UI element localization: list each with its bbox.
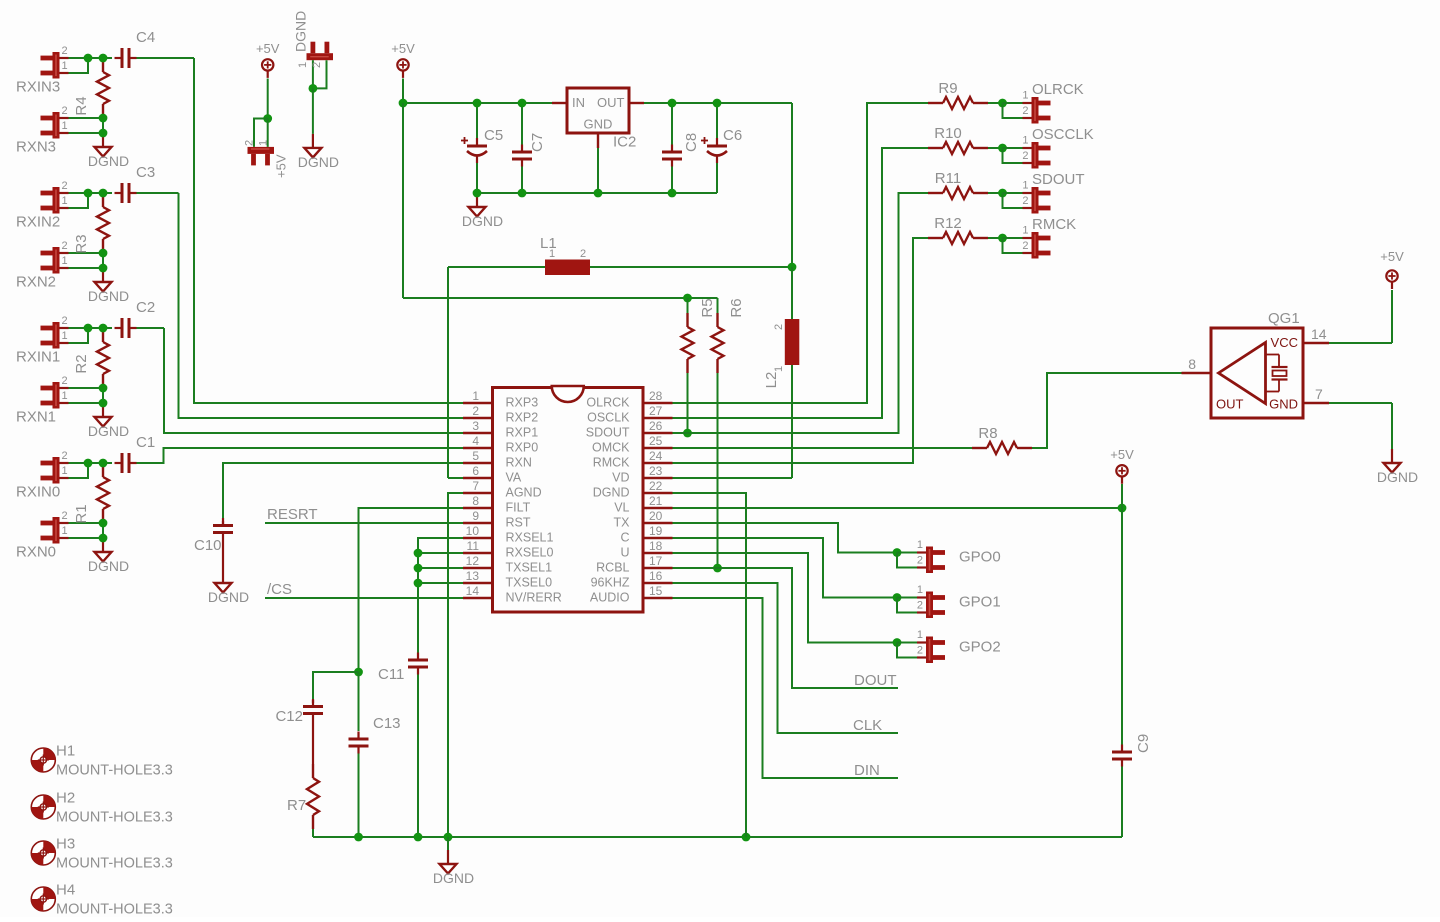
- svg-text:MOUNT-HOLE3.3: MOUNT-HOLE3.3: [56, 902, 173, 918]
- svg-text:OUT: OUT: [1216, 397, 1244, 412]
- svg-text:C9: C9: [1135, 734, 1152, 753]
- svg-text:VL: VL: [614, 501, 629, 515]
- svg-text:2: 2: [773, 324, 785, 330]
- svg-text:RXIN0: RXIN0: [16, 484, 60, 501]
- svg-text:IC2: IC2: [613, 134, 636, 151]
- svg-text:2: 2: [62, 510, 68, 522]
- svg-text:GND: GND: [584, 117, 613, 132]
- svg-text:1: 1: [62, 330, 68, 342]
- svg-text:RXN: RXN: [506, 456, 532, 470]
- svg-text:2: 2: [62, 45, 68, 57]
- svg-text:C6: C6: [723, 127, 742, 144]
- svg-text:U: U: [620, 546, 629, 560]
- svg-text:DGND: DGND: [88, 423, 129, 439]
- svg-text:C: C: [620, 531, 629, 545]
- svg-text:DGND: DGND: [1377, 469, 1418, 485]
- svg-text:RCBL: RCBL: [596, 561, 629, 575]
- svg-text:1: 1: [62, 525, 68, 537]
- svg-text:7: 7: [1315, 386, 1323, 402]
- svg-text:NV/RERR: NV/RERR: [506, 591, 562, 605]
- svg-text:R4: R4: [73, 96, 90, 115]
- svg-text:28: 28: [649, 389, 663, 403]
- svg-text:2: 2: [62, 375, 68, 387]
- svg-text:1: 1: [62, 60, 68, 72]
- svg-text:C10: C10: [194, 537, 222, 554]
- svg-text:RXP3: RXP3: [506, 396, 539, 410]
- svg-text:OSCLK: OSCLK: [587, 411, 630, 425]
- svg-text:1: 1: [258, 140, 270, 146]
- svg-text:R6: R6: [728, 298, 745, 317]
- svg-text:8: 8: [1188, 356, 1196, 372]
- svg-text:5: 5: [472, 449, 479, 463]
- svg-text:H2: H2: [56, 790, 75, 807]
- svg-text:C5: C5: [484, 127, 503, 144]
- svg-text:2: 2: [1022, 195, 1028, 207]
- svg-text:R9: R9: [938, 80, 957, 97]
- svg-text:1: 1: [62, 195, 68, 207]
- svg-text:2: 2: [62, 240, 68, 252]
- svg-text:1: 1: [62, 120, 68, 132]
- svg-text:2: 2: [62, 180, 68, 192]
- svg-text:2: 2: [62, 105, 68, 117]
- svg-text:14: 14: [1311, 326, 1327, 342]
- svg-text:R2: R2: [73, 354, 90, 373]
- svg-text:2: 2: [917, 645, 923, 657]
- svg-text:OSCCLK: OSCCLK: [1032, 126, 1094, 143]
- svg-text:1: 1: [917, 629, 923, 641]
- svg-text:SDOUT: SDOUT: [1032, 171, 1085, 188]
- svg-text:1: 1: [472, 389, 479, 403]
- svg-text:1: 1: [917, 584, 923, 596]
- svg-text:17: 17: [649, 554, 663, 568]
- svg-text:DOUT: DOUT: [854, 672, 897, 689]
- svg-text:RMCK: RMCK: [1032, 216, 1076, 233]
- svg-text:C1: C1: [136, 434, 155, 451]
- svg-text:1: 1: [297, 62, 309, 68]
- svg-text:R3: R3: [73, 234, 90, 253]
- svg-text:OUT: OUT: [597, 95, 625, 110]
- svg-text:1: 1: [1022, 90, 1028, 102]
- svg-text:C7: C7: [529, 133, 546, 152]
- svg-text:RXN1: RXN1: [16, 409, 56, 426]
- svg-text:TX: TX: [614, 516, 631, 530]
- svg-text:C12: C12: [275, 708, 303, 725]
- svg-text:11: 11: [467, 539, 480, 553]
- svg-text:H1: H1: [56, 743, 75, 760]
- svg-text:18: 18: [649, 539, 663, 553]
- svg-text:+5V: +5V: [391, 41, 415, 56]
- svg-text:RXN2: RXN2: [16, 274, 56, 291]
- svg-text:7: 7: [472, 479, 479, 493]
- svg-text:2: 2: [917, 555, 923, 567]
- svg-text:OLRCK: OLRCK: [586, 396, 630, 410]
- svg-text:26: 26: [649, 419, 663, 433]
- svg-text:DIN: DIN: [854, 762, 880, 779]
- svg-text:OMCK: OMCK: [592, 441, 630, 455]
- svg-text:2: 2: [1022, 240, 1028, 252]
- svg-text:C11: C11: [378, 666, 404, 683]
- svg-text:96KHZ: 96KHZ: [591, 576, 630, 590]
- svg-text:3: 3: [472, 419, 479, 433]
- svg-text:27: 27: [649, 404, 663, 418]
- svg-text:24: 24: [649, 449, 663, 463]
- svg-text:GPO1: GPO1: [959, 594, 1001, 611]
- svg-text:R1: R1: [73, 504, 90, 523]
- svg-text:2: 2: [62, 450, 68, 462]
- svg-text:2: 2: [1022, 150, 1028, 162]
- svg-text:R12: R12: [934, 215, 962, 232]
- svg-text:IN: IN: [572, 95, 585, 110]
- svg-text:RXP1: RXP1: [506, 426, 539, 440]
- svg-text:RESRT: RESRT: [267, 506, 318, 523]
- svg-text:9: 9: [472, 509, 479, 523]
- svg-text:L1: L1: [540, 235, 557, 252]
- svg-text:RXP2: RXP2: [506, 411, 539, 425]
- svg-text:CLK: CLK: [853, 717, 882, 734]
- svg-text:+5V: +5V: [1380, 249, 1404, 264]
- svg-text:SDOUT: SDOUT: [586, 426, 630, 440]
- svg-text:12: 12: [466, 554, 480, 568]
- svg-text:14: 14: [466, 584, 480, 598]
- svg-text:DGND: DGND: [433, 870, 474, 886]
- svg-text:8: 8: [472, 494, 479, 508]
- svg-text:RXN0: RXN0: [16, 544, 56, 561]
- svg-text:TXSEL0: TXSEL0: [506, 576, 553, 590]
- svg-text:R7: R7: [287, 797, 306, 814]
- svg-text:AGND: AGND: [506, 486, 542, 500]
- svg-text:RXN3: RXN3: [16, 139, 56, 156]
- svg-text:GND: GND: [1269, 397, 1298, 412]
- svg-text:H4: H4: [56, 882, 75, 899]
- svg-text:RMCK: RMCK: [593, 456, 630, 470]
- svg-text:RXIN3: RXIN3: [16, 79, 60, 96]
- svg-text:1: 1: [62, 465, 68, 477]
- svg-text:H3: H3: [56, 836, 75, 853]
- svg-text:GPO2: GPO2: [959, 639, 1001, 656]
- svg-text:DGND: DGND: [88, 153, 129, 169]
- svg-text:DGND: DGND: [593, 486, 630, 500]
- svg-text:25: 25: [649, 434, 663, 448]
- svg-text:L2: L2: [763, 372, 780, 389]
- svg-text:C3: C3: [136, 164, 155, 181]
- svg-text:C13: C13: [373, 715, 401, 732]
- svg-text:DGND: DGND: [293, 11, 309, 52]
- svg-text:2: 2: [917, 600, 923, 612]
- svg-text:2: 2: [580, 248, 586, 260]
- svg-text:VA: VA: [506, 471, 522, 485]
- svg-text:MOUNT-HOLE3.3: MOUNT-HOLE3.3: [56, 856, 173, 872]
- svg-text:23: 23: [649, 464, 663, 478]
- svg-text:RXP0: RXP0: [506, 441, 539, 455]
- svg-text:DGND: DGND: [88, 558, 129, 574]
- svg-text:2: 2: [62, 315, 68, 327]
- svg-text:2: 2: [472, 404, 479, 418]
- svg-text:1: 1: [62, 255, 68, 267]
- svg-text:10: 10: [466, 524, 480, 538]
- svg-text:R10: R10: [934, 125, 962, 142]
- svg-text:C8: C8: [683, 133, 700, 152]
- svg-text:1: 1: [1022, 225, 1028, 237]
- svg-text:C4: C4: [136, 29, 155, 46]
- svg-text:1: 1: [1022, 135, 1028, 147]
- svg-text:2: 2: [311, 62, 323, 68]
- svg-text:4: 4: [472, 434, 479, 448]
- svg-text:1: 1: [773, 366, 785, 372]
- svg-text:RXIN2: RXIN2: [16, 214, 60, 231]
- svg-text:1: 1: [1022, 180, 1028, 192]
- svg-text:QG1: QG1: [1268, 310, 1300, 327]
- svg-text:DGND: DGND: [462, 213, 503, 229]
- svg-text:FILT: FILT: [506, 501, 531, 515]
- svg-text:20: 20: [649, 509, 663, 523]
- svg-text:6: 6: [472, 464, 479, 478]
- svg-text:21: 21: [649, 494, 663, 508]
- svg-text:RXSEL0: RXSEL0: [506, 546, 554, 560]
- svg-text:1: 1: [917, 539, 923, 551]
- svg-text:VD: VD: [612, 471, 629, 485]
- svg-text:AUDIO: AUDIO: [590, 591, 630, 605]
- svg-text:13: 13: [466, 569, 480, 583]
- svg-text:+5V: +5V: [274, 154, 289, 178]
- svg-text:2: 2: [244, 140, 256, 146]
- svg-text:16: 16: [649, 569, 663, 583]
- svg-text:/CS: /CS: [267, 581, 292, 598]
- svg-text:RST: RST: [506, 516, 531, 530]
- svg-text:+5V: +5V: [1110, 447, 1134, 462]
- svg-text:1: 1: [62, 390, 68, 402]
- svg-text:R5: R5: [699, 298, 716, 317]
- svg-text:15: 15: [649, 584, 663, 598]
- svg-text:VCC: VCC: [1271, 335, 1298, 350]
- svg-text:22: 22: [649, 479, 663, 493]
- svg-text:MOUNT-HOLE3.3: MOUNT-HOLE3.3: [56, 763, 173, 779]
- svg-text:GPO0: GPO0: [959, 549, 1001, 566]
- svg-text:DGND: DGND: [208, 589, 249, 605]
- svg-text:RXSEL1: RXSEL1: [506, 531, 554, 545]
- svg-text:DGND: DGND: [88, 288, 129, 304]
- svg-text:C2: C2: [136, 299, 155, 316]
- svg-text:19: 19: [649, 524, 663, 538]
- svg-text:RXIN1: RXIN1: [16, 349, 60, 366]
- svg-text:2: 2: [1022, 105, 1028, 117]
- svg-text:DGND: DGND: [298, 154, 339, 170]
- svg-text:MOUNT-HOLE3.3: MOUNT-HOLE3.3: [56, 810, 173, 826]
- svg-text:R11: R11: [935, 170, 961, 187]
- svg-text:+5V: +5V: [256, 41, 280, 56]
- svg-text:R8: R8: [978, 425, 997, 442]
- svg-text:OLRCK: OLRCK: [1032, 81, 1084, 98]
- svg-text:TXSEL1: TXSEL1: [506, 561, 553, 575]
